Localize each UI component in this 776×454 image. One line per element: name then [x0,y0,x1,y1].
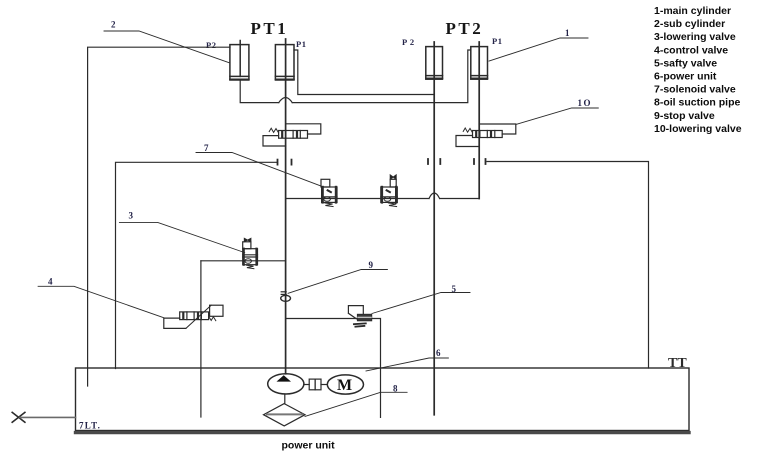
svg-text:M: M [337,377,352,394]
valve 3 body [243,249,258,265]
svg-text:1: 1 [565,28,570,38]
valve 3 pilot box [243,242,251,249]
svg-text:5-safty valve: 5-safty valve [654,57,717,69]
legend list [654,5,742,135]
svg-text:8: 8 [393,384,398,394]
leader 6 [366,358,448,371]
junction tick at 277.5,162 [277,160,279,165]
svg-text:P1: P1 [492,36,502,46]
wire hop over main rod at y=102.6 [279,98,292,103]
wire rod PT2-P1 vertical to lowering pipe [478,42,480,199]
safety valve 5 funnel [348,306,363,319]
wire valve 4 bottom loop [164,318,186,328]
wire valve V10 bottom loop [456,136,479,147]
svg-text:6: 6 [436,348,441,358]
junction tick at 428,161.5 [427,159,429,164]
wire control riser x=200.9 [200,261,202,417]
wire solenoid pipe y=198.5 left part [286,198,429,200]
pump P circle [268,374,304,394]
svg-text:8-oil suction pipe: 8-oil suction pipe [654,97,740,109]
svg-text:7-solenoid valve: 7-solenoid valve [654,84,736,96]
valve 4 spring right [209,316,216,320]
svg-text:6-power unit: 6-power unit [654,71,717,83]
svg-text:4-control valve: 4-control valve [654,44,728,56]
svg-text:4: 4 [48,277,53,287]
stop valve 9 ticks [281,291,286,293]
safety valve 5 body [357,314,371,321]
solenoid valve 7b body [381,187,398,202]
leader 5 [372,293,470,314]
valve 3 spring bottom [247,265,254,269]
svg-text:2: 2 [111,20,116,30]
valve 4 body [180,312,209,320]
wire PT1-P2 bottom pipe [240,79,279,102]
valve V10 spring left [463,128,472,133]
valve V-PT1 (lowering valve under PT1) body [279,131,308,139]
svg-text:PT2: PT2 [446,19,484,38]
wire pipe y=102.6 to PT2-P1 side port [292,50,471,103]
svg-text:1-main cylinder: 1-main cylinder [654,5,731,17]
leader 9 [288,270,387,294]
junction tick at 485.5,161.5 [485,159,487,164]
wire drain line [20,416,76,418]
tank (power unit reservoir) [76,368,690,431]
wire solenoid pipe y=198.5 right part [440,198,480,200]
valve V10 (lowering valve under PT2) body [473,131,503,138]
svg-text:9-stop valve: 9-stop valve [654,110,715,122]
leader 10 [516,108,598,124]
svg-text:1O: 1O [578,98,593,108]
svg-text:7: 7 [204,143,209,153]
leader 3 [119,222,244,252]
safety valve 5 drain mark [354,323,366,326]
drain symbol X left [12,412,25,422]
svg-text:power unit: power unit [282,440,336,452]
valve 4 lever diagonal [186,305,211,328]
cylinder PT1-P2 body [230,45,249,80]
svg-text:10-lowering valve: 10-lowering valve [654,123,742,135]
cylinder PT2-P2 body [426,47,443,80]
svg-text:P1: P1 [296,39,306,49]
svg-text:7LT.: 7LT. [79,421,101,431]
leader 7 [196,153,321,187]
wire safety pipe y=318.5 [286,319,381,418]
wire PT1-P1 side port pipe to PT2-P2 [294,50,434,95]
leader 4 [38,286,164,318]
wire right frame pipe y=161.5 [487,162,649,369]
solenoid valve 7a body [322,187,337,202]
wire rod PT2-P2 vertical into tank [433,42,435,415]
wire hop over PT2-P2 rod at y=198.5 [429,193,440,199]
solenoid valve 7b manual override X [390,175,396,179]
wire lowering pipe y=260.8 [201,260,286,262]
svg-text:5: 5 [452,284,457,294]
junction tick at 291.5,162 [291,160,293,165]
coupling boxes [309,379,315,390]
svg-text:3: 3 [129,211,134,221]
wire valve V10 top loop [479,124,516,134]
junction tick at 474,161.5 [473,159,475,164]
wire valve V-PT1 bottom loop [263,136,286,146]
tank bottom thick edge [76,431,690,434]
valve 4 pilot box top right [210,305,223,316]
valve 3 manual override X [244,238,251,242]
svg-text:3-lowering valve: 3-lowering valve [654,31,736,43]
leader 2 [104,31,229,63]
motor M [327,375,363,394]
svg-text:9: 9 [369,260,374,270]
svg-text:P2: P2 [206,40,216,50]
solenoid valve 7a spring bottom [325,203,333,207]
svg-text:PT1: PT1 [251,19,289,38]
wire top-left supply line [88,47,230,386]
leader 8 [305,392,407,416]
pump P triangle [277,375,292,381]
wire valve V-PT1 top loop [286,124,321,134]
stop valve 9 ball [281,295,291,301]
cylinder PT1-P1 body [275,45,294,80]
cylinder PT2-P1 body [471,47,488,80]
solenoid valve 7a pilot box [321,179,330,187]
junction tick at 440.3,161.5 [439,159,441,164]
svg-text:P 2: P 2 [402,37,415,47]
suction filter element line [267,413,302,415]
wire pump to filter [284,394,286,404]
wire main rod PT1-P1 vertical to pump [285,39,287,374]
wire left return riser [116,162,278,368]
svg-text:TT: TT [668,356,687,371]
valve V-PT1 spring left [269,128,278,133]
solenoid valve 7b spring bottom [388,203,396,207]
solenoid valve 7b pilot box [390,179,396,187]
leader 1 [489,38,588,61]
cylinder PT1-P2 rod [239,41,241,77]
suction filter diamond [264,404,306,426]
svg-text:2-sub cylinder: 2-sub cylinder [654,18,725,30]
